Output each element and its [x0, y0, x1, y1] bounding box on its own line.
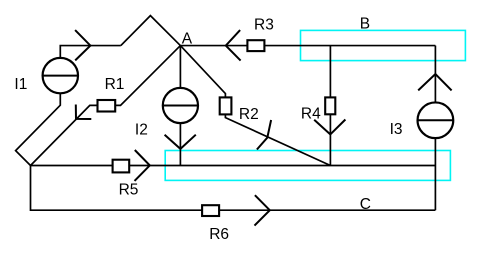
- wire node A vertical down to I2 top: [179, 46, 181, 88]
- svg-text:R1: R1: [105, 76, 125, 93]
- resistor R4: [325, 97, 335, 114]
- wire R6 to bottom right corner: [219, 209, 435, 211]
- arrow above I3 (pointing up): [418, 74, 451, 90]
- resistor R5: [113, 160, 130, 173]
- wire I1 bottom to left corner junction: [16, 93, 61, 165]
- arrow on bus after R5 (pointing right): [135, 150, 150, 181]
- wire C loop: corner down and along bottom to R6: [31, 166, 203, 211]
- wire node A to R3: [180, 45, 247, 47]
- arrow below I2 (pointing down): [165, 135, 196, 149]
- wire bottom bus from R5 to right vertical: [129, 165, 435, 167]
- resistor R3: [247, 40, 264, 51]
- arrow on C wire after R6 (pointing right): [255, 195, 270, 225]
- svg-text:A: A: [182, 31, 193, 48]
- wire peak from bend over apex to node A: [121, 16, 181, 46]
- wire R3 to node B corner: [264, 45, 435, 47]
- wire node A diagonal down to R2 top: [180, 46, 225, 98]
- node B highlight box: [301, 30, 466, 60]
- current source I1: [43, 58, 78, 93]
- svg-text:I1: I1: [14, 76, 27, 93]
- svg-text:R6: R6: [209, 226, 229, 243]
- resistor R1: [98, 100, 116, 112]
- wire R4 bottom down to bottom bus: [329, 114, 331, 165]
- current source I2: [163, 88, 198, 123]
- svg-text:B: B: [360, 16, 370, 33]
- svg-text:R2: R2: [239, 106, 259, 123]
- wire R1 right pin diagonal up to node A: [115, 46, 180, 106]
- node D highlight box (bottom bus): [165, 151, 450, 181]
- svg-text:I3: I3: [390, 121, 403, 138]
- wire corner junction diagonal up to R1 left pin: [31, 105, 98, 165]
- wire node B corner down to I3 top: [434, 46, 436, 103]
- wire I2 bottom to bus: [179, 123, 181, 165]
- wire bottom bus left of R5: [31, 165, 113, 167]
- wire R2 bottom diagonal to bus junction: [225, 114, 330, 165]
- arrow on I1 top wire (pointing right): [75, 30, 90, 60]
- svg-text:C: C: [360, 196, 371, 213]
- arrow on R2 bottom diagonal (pointing down-right): [257, 120, 271, 150]
- wire I3 bottom down to C wire: [434, 138, 436, 210]
- svg-text:R4: R4: [301, 105, 321, 122]
- svg-text:R3: R3: [254, 16, 274, 33]
- svg-text:R5: R5: [119, 181, 139, 198]
- arrow below R4 (pointing down): [314, 120, 345, 135]
- current source I3: [418, 102, 454, 138]
- resistor R2: [220, 97, 232, 114]
- resistor R6: [202, 205, 219, 216]
- wire node B branch down to R4 top: [329, 46, 331, 98]
- arrow on R1 diagonal (pointing down-left): [76, 105, 92, 120]
- arrow on A-R3 wire (pointing left): [226, 30, 241, 60]
- svg-text:I2: I2: [135, 122, 148, 139]
- wire I1 top to bend: [60, 46, 121, 58]
